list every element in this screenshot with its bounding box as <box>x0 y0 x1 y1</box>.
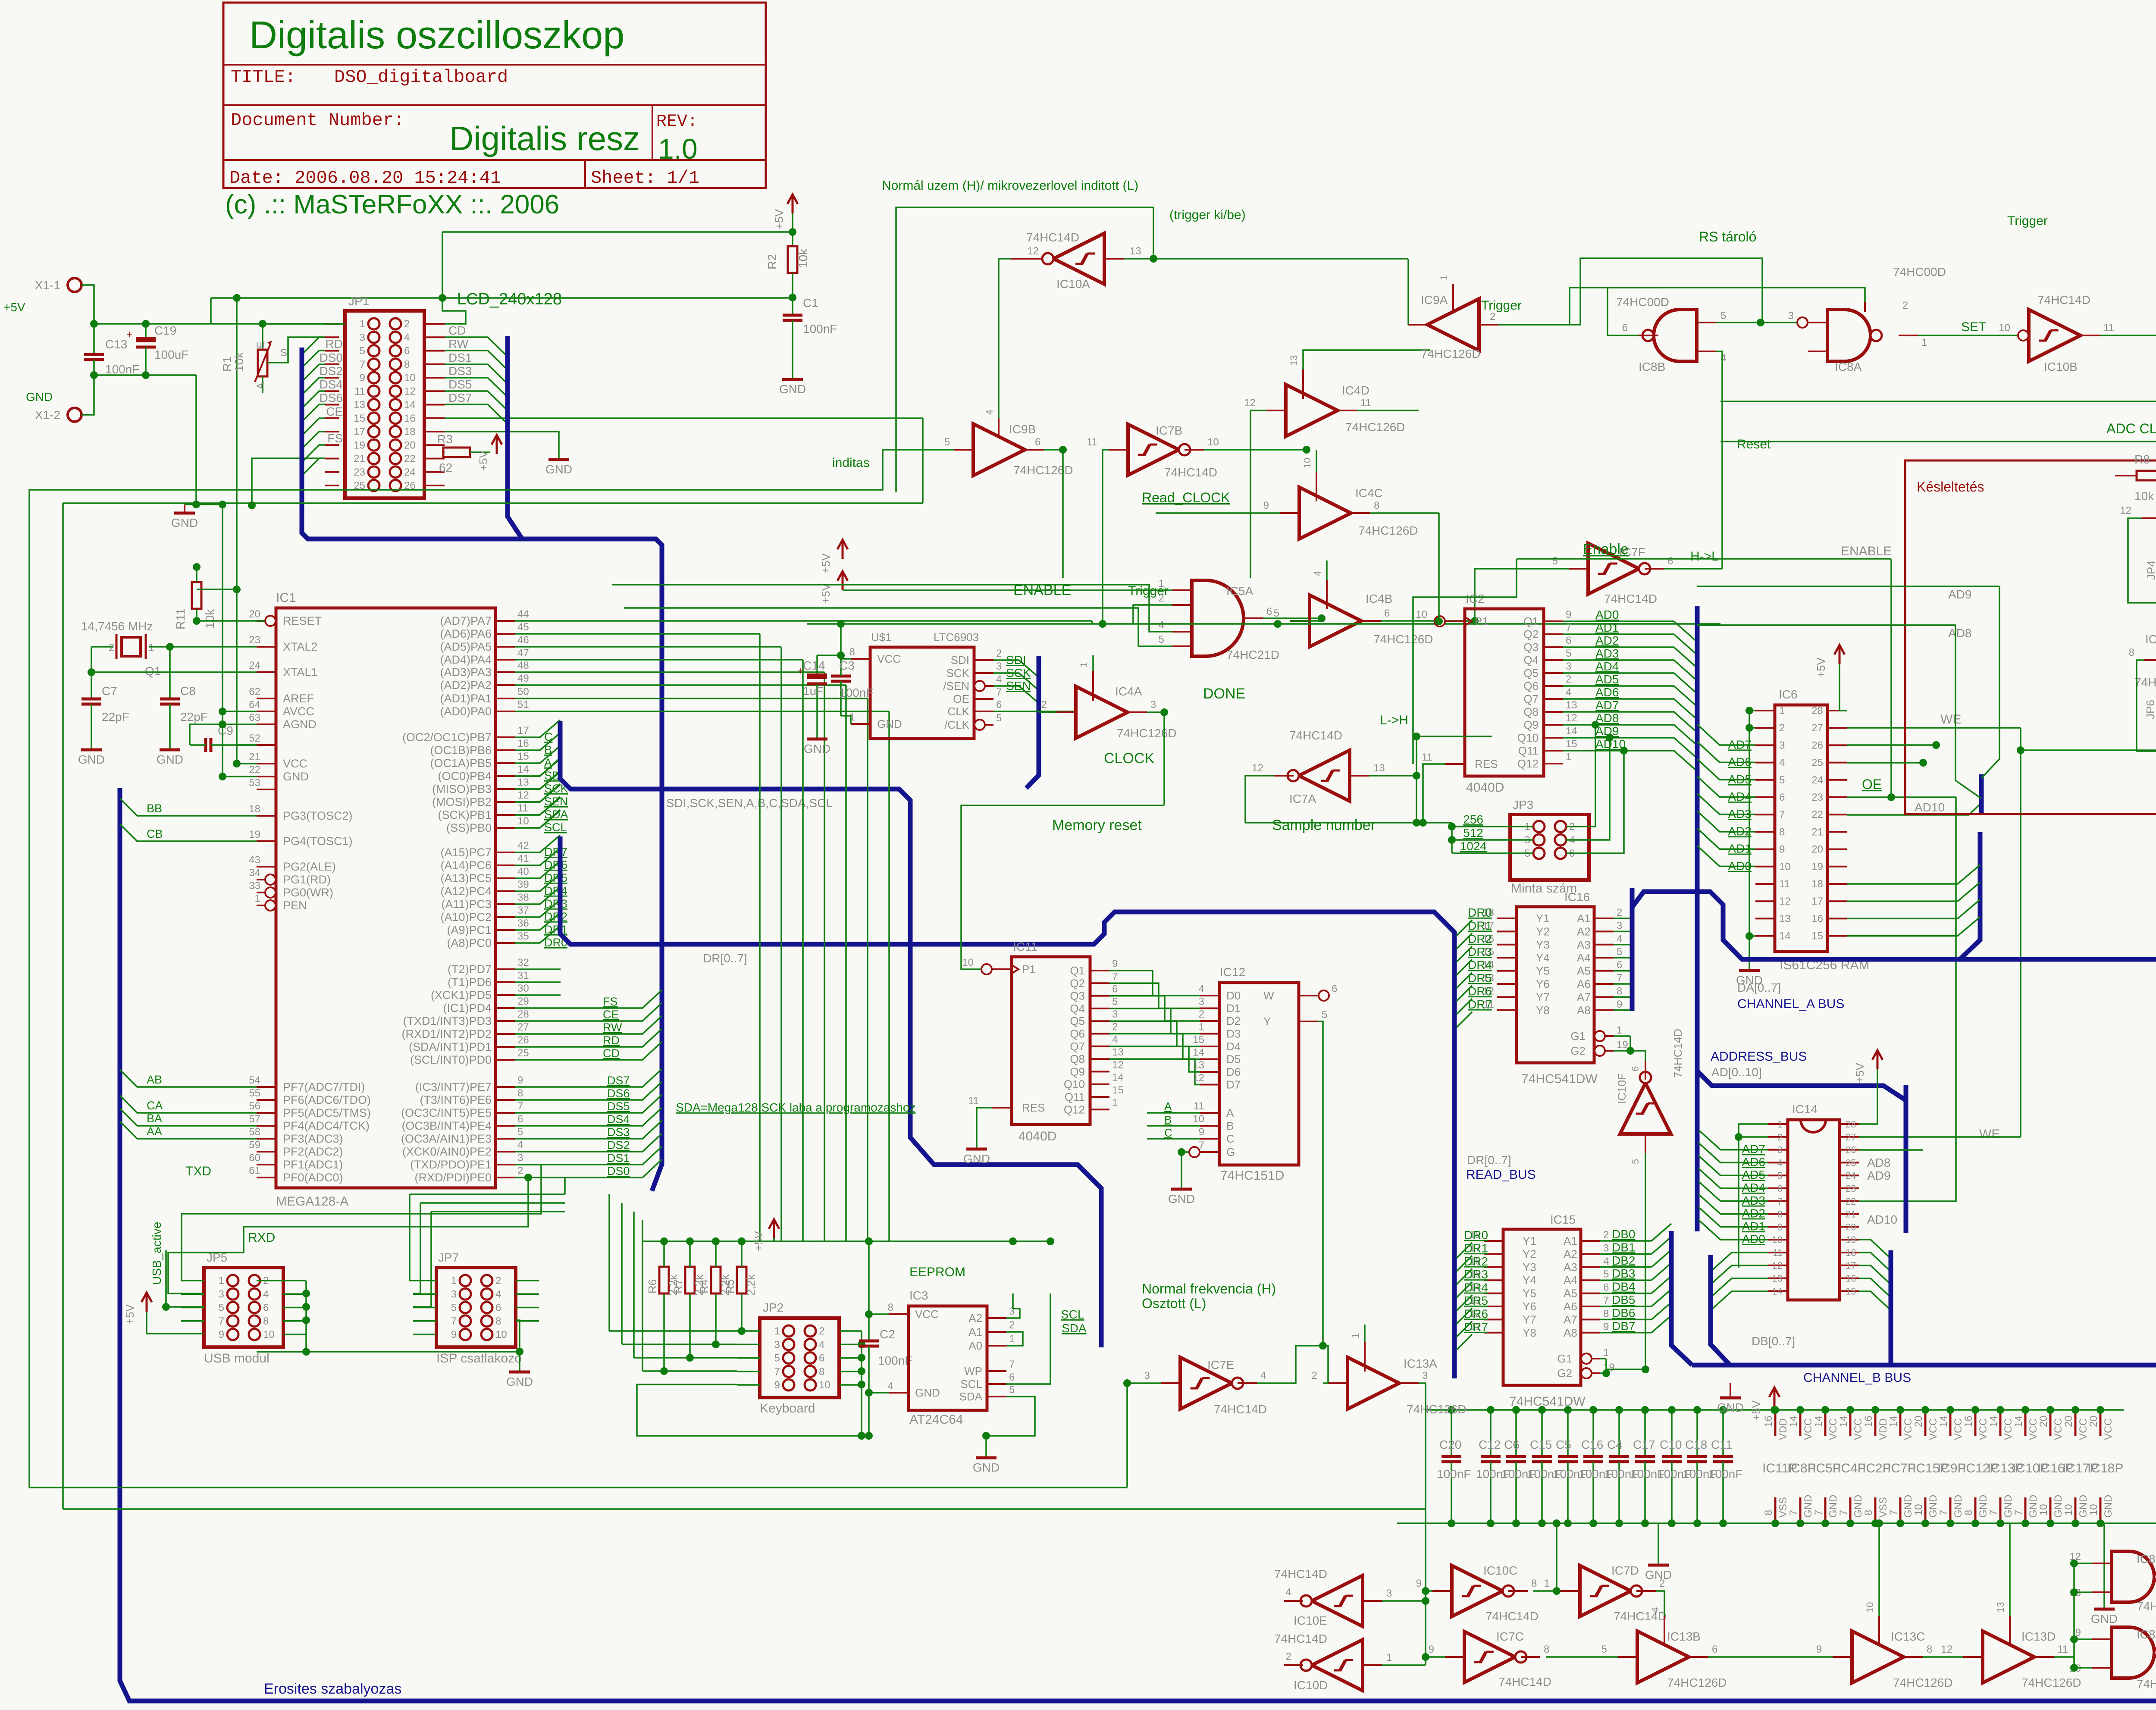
svg-text:Q12: Q12 <box>1064 1103 1085 1116</box>
nand IC8A <box>1827 310 1871 361</box>
svg-text:4: 4 <box>1312 571 1323 576</box>
svg-text:12: 12 <box>517 789 529 801</box>
IC3 vcc wire <box>869 1313 889 1315</box>
svg-text:IC8B: IC8B <box>1639 360 1665 373</box>
svg-text:C16: C16 <box>1581 1438 1603 1451</box>
svg-text:PG2(ALE): PG2(ALE) <box>283 860 336 873</box>
svg-text:AD8: AD8 <box>1595 711 1619 725</box>
svg-text:1: 1 <box>774 1325 780 1337</box>
svg-text:JP7: JP7 <box>438 1251 459 1264</box>
svg-text:+5V: +5V <box>752 1231 765 1251</box>
svg-text:2: 2 <box>1617 907 1622 918</box>
svg-text:4: 4 <box>1286 1586 1291 1598</box>
svg-text:LTC6903: LTC6903 <box>934 631 979 644</box>
wire IC6 gnd pins <box>1749 711 1755 970</box>
svg-text:IC13B: IC13B <box>1667 1630 1701 1643</box>
svg-text:IC5A: IC5A <box>1226 584 1253 598</box>
svg-text:3: 3 <box>1779 739 1785 751</box>
svg-text:CHANNEL_A BUS: CHANNEL_A BUS <box>1737 997 1844 1011</box>
svg-text:8: 8 <box>1863 1510 1874 1516</box>
svg-text:4: 4 <box>1720 352 1726 364</box>
svg-text:42: 42 <box>517 840 529 852</box>
svg-text:DB7: DB7 <box>1612 1319 1635 1333</box>
svg-text:4: 4 <box>1112 1034 1118 1046</box>
svg-text:(A13)PC5: (A13)PC5 <box>440 872 492 885</box>
inverter IC10B <box>2029 310 2081 361</box>
svg-text:Trigger: Trigger <box>2007 214 2048 228</box>
svg-text:10: 10 <box>1207 436 1219 448</box>
svg-text:2: 2 <box>1779 722 1785 734</box>
svg-text:8: 8 <box>1531 1578 1537 1589</box>
svg-text:(c) .:: MaSTeRFoXX ::. 2006: (c) .:: MaSTeRFoXX ::. 2006 <box>225 190 559 219</box>
JP3 right wires <box>1566 725 1595 827</box>
svg-text:1: 1 <box>1544 1578 1550 1589</box>
svg-text:GND: GND <box>915 1386 940 1399</box>
bus AD short <box>1979 774 1984 814</box>
wire IC4C out v <box>1438 513 1440 621</box>
svg-text:(A9)PC1: (A9)PC1 <box>447 924 492 936</box>
ground right <box>2094 1608 2115 1611</box>
svg-text:9: 9 <box>517 1074 523 1086</box>
svg-text:16: 16 <box>1811 913 1823 924</box>
svg-text:10: 10 <box>2063 1504 2075 1516</box>
svg-text:RD: RD <box>326 337 343 351</box>
IC1 pin AGND <box>257 723 276 725</box>
svg-text:DS5: DS5 <box>448 378 472 391</box>
svg-text:61: 61 <box>249 1165 260 1177</box>
IC14 AD diagonals <box>1698 1130 1768 1150</box>
svg-text:Y2: Y2 <box>1523 1247 1536 1260</box>
svg-text:5: 5 <box>1630 1159 1641 1164</box>
svg-text:74HC21D: 74HC21D <box>1226 648 1279 661</box>
wire IC7F in <box>1475 569 1569 621</box>
svg-text:(A12)PC4: (A12)PC4 <box>440 885 492 898</box>
svg-text:37: 37 <box>517 905 529 916</box>
wire IC12 Y <box>1318 1021 1323 1345</box>
svg-text:C11: C11 <box>1711 1438 1732 1451</box>
svg-text:DS7: DS7 <box>607 1074 630 1087</box>
svg-text:74HC126D: 74HC126D <box>2134 676 2156 689</box>
svg-text:H->L: H->L <box>1690 549 1719 564</box>
+5V arrow R3 <box>492 435 502 454</box>
svg-text:20: 20 <box>2088 1416 2100 1427</box>
wire CE out <box>445 417 923 419</box>
svg-text:4: 4 <box>1650 1607 1661 1613</box>
svg-text:PF2(ADC2): PF2(ADC2) <box>283 1145 343 1158</box>
svg-text:Y4: Y4 <box>1536 951 1550 964</box>
svg-text:DB4: DB4 <box>1612 1280 1635 1293</box>
svg-text:C10: C10 <box>1660 1438 1682 1451</box>
svg-text:14: 14 <box>1112 1072 1124 1084</box>
svg-text:8: 8 <box>1763 1510 1774 1516</box>
svg-text:4: 4 <box>819 1339 824 1350</box>
+5V arrow caps <box>1769 1387 1780 1406</box>
wire IC13D enable <box>2009 1599 2011 1616</box>
nand IC8B <box>1654 310 1697 361</box>
svg-text:AB: AB <box>147 1073 162 1086</box>
connector JP2 Keyboard <box>760 1318 839 1397</box>
svg-text:Y2: Y2 <box>1536 925 1550 938</box>
svg-text:IC8P: IC8P <box>1787 1461 1816 1475</box>
wire trigger to IC5A <box>1133 605 1172 624</box>
svg-text:6: 6 <box>1384 608 1390 619</box>
svg-text:DONE: DONE <box>1203 686 1245 702</box>
svg-text:BA: BA <box>147 1112 162 1125</box>
svg-text:12: 12 <box>404 385 416 397</box>
svg-text:+5V: +5V <box>1853 1062 1866 1083</box>
svg-text:Q5: Q5 <box>1070 1015 1085 1027</box>
svg-text:DB6: DB6 <box>1612 1306 1635 1319</box>
IC1 pin PG1(RD) <box>257 879 276 880</box>
svg-text:10: 10 <box>1772 1234 1783 1245</box>
svg-text:15: 15 <box>1811 930 1823 942</box>
svg-text:Normál uzem (H)/ mikrovezerlov: Normál uzem (H)/ mikrovezerlovel inditot… <box>882 179 1138 193</box>
svg-text:VCC: VCC <box>1902 1418 1914 1440</box>
IC IC16 74HC541DW <box>1517 907 1594 1063</box>
svg-text:5: 5 <box>944 436 950 448</box>
wire GND branch <box>185 375 196 504</box>
svg-text:3: 3 <box>996 661 1002 672</box>
svg-text:35: 35 <box>517 930 529 942</box>
svg-text:12: 12 <box>1772 1260 1783 1271</box>
svg-text:9: 9 <box>1566 609 1571 620</box>
svg-text:(SS)PB0: (SS)PB0 <box>446 821 492 834</box>
svg-text:1: 1 <box>219 1275 224 1287</box>
svg-text:7: 7 <box>1112 971 1118 982</box>
bus address branch <box>1697 1071 1906 1212</box>
wire AD9 route <box>1981 586 1999 778</box>
svg-text:D6: D6 <box>1226 1065 1241 1078</box>
svg-text:74HC541DW: 74HC541DW <box>1521 1072 1598 1086</box>
svg-text:MEGA128-A: MEGA128-A <box>276 1194 348 1209</box>
svg-text:11: 11 <box>2103 322 2114 334</box>
IC1 PA wires <box>515 620 1092 622</box>
svg-text:2: 2 <box>819 1325 824 1337</box>
svg-text:Késleltetés: Késleltetés <box>1917 479 1984 495</box>
svg-text:ISP csatlakozo: ISP csatlakozo <box>436 1351 522 1365</box>
svg-text:10: 10 <box>517 815 529 827</box>
svg-text:GND: GND <box>1902 1495 1914 1518</box>
svg-text:C8: C8 <box>180 684 196 698</box>
wire IC10F in <box>1645 1153 1646 1369</box>
svg-text:3: 3 <box>1150 699 1156 711</box>
svg-text:3: 3 <box>1199 996 1204 1008</box>
svg-text:4: 4 <box>1617 933 1622 945</box>
svg-text:16: 16 <box>1963 1416 1974 1427</box>
wire IC4D enable <box>1303 350 1430 370</box>
svg-text:WE: WE <box>1940 712 1961 727</box>
svg-text:7: 7 <box>360 359 365 370</box>
svg-text:7: 7 <box>1788 1510 1799 1516</box>
svg-text:DR4: DR4 <box>1464 1281 1488 1294</box>
svg-text:14: 14 <box>2013 1416 2024 1427</box>
+5V arrow IC6 <box>1834 645 1845 664</box>
svg-text:50: 50 <box>517 686 529 698</box>
svg-text:10: 10 <box>1302 458 1313 468</box>
svg-text:CE: CE <box>326 405 343 418</box>
svg-text:16: 16 <box>517 738 529 749</box>
svg-text:(OC1A)PB5: (OC1A)PB5 <box>430 757 492 770</box>
svg-text:26: 26 <box>1846 1145 1856 1156</box>
svg-text:PF1(ADC1): PF1(ADC1) <box>283 1158 343 1171</box>
svg-text:5: 5 <box>1552 555 1558 567</box>
IC IC12 74HC151D <box>1219 983 1299 1165</box>
svg-text:IC13A: IC13A <box>1404 1357 1437 1370</box>
svg-text:(IC1)PD4: (IC1)PD4 <box>443 1002 492 1015</box>
svg-text:74HC126D: 74HC126D <box>1667 1676 1727 1689</box>
svg-text:49: 49 <box>517 673 529 684</box>
svg-text:(SCL/INT0)PD0: (SCL/INT0)PD0 <box>410 1053 492 1066</box>
svg-text:27: 27 <box>1846 1132 1856 1143</box>
wires res to kbd <box>663 1294 665 1371</box>
capacitor C13 <box>93 324 95 354</box>
wire IC7A out <box>1245 776 1274 823</box>
IC1 pin GND <box>257 776 276 777</box>
svg-text:IC7B: IC7B <box>1156 424 1182 437</box>
IC2 pins <box>1445 620 1465 622</box>
svg-text:Y1: Y1 <box>1536 912 1550 925</box>
svg-text:74HC126D: 74HC126D <box>2021 1676 2081 1689</box>
svg-text:9: 9 <box>1603 1321 1609 1333</box>
svg-text:8: 8 <box>1603 1308 1609 1319</box>
svg-text:RES: RES <box>1475 758 1498 770</box>
svg-text:/SEN: /SEN <box>943 680 969 692</box>
svg-text:DS6: DS6 <box>607 1087 630 1100</box>
wire IC4A enable <box>1092 655 1094 671</box>
wire gnd drop2 <box>2103 1523 2105 1608</box>
svg-text:VCC: VCC <box>1927 1418 1939 1440</box>
svg-text:D1: D1 <box>1226 1002 1241 1015</box>
svg-text:IC13C: IC13C <box>1891 1630 1925 1643</box>
svg-text:20: 20 <box>1913 1416 1924 1427</box>
+5V arrow res rail <box>769 1219 779 1238</box>
svg-text:Q8: Q8 <box>1070 1052 1085 1065</box>
svg-text:1: 1 <box>1078 662 1089 667</box>
svg-text:41: 41 <box>517 853 529 864</box>
svg-text:54: 54 <box>249 1074 260 1086</box>
svg-text:D0: D0 <box>1226 989 1241 1002</box>
wire IC7E in <box>1127 1382 1161 1384</box>
svg-text:9: 9 <box>360 372 365 384</box>
svg-text:IC2P: IC2P <box>1862 1461 1891 1475</box>
+5V arrow JP5 <box>141 1293 152 1312</box>
svg-text:DR3: DR3 <box>1464 1268 1488 1281</box>
svg-text:2: 2 <box>1286 1651 1291 1663</box>
bus SDI vertical <box>560 721 1101 1347</box>
svg-text:6: 6 <box>1630 1066 1641 1071</box>
svg-text:+5V: +5V <box>773 209 786 229</box>
svg-text:9: 9 <box>1429 1644 1434 1655</box>
svg-text:1: 1 <box>1566 751 1571 763</box>
U$1 pins <box>851 658 870 660</box>
wire ADC_CLOCK h <box>1720 401 2156 402</box>
svg-text:100nF: 100nF <box>1437 1467 1471 1481</box>
wire VCC GND <box>237 763 257 764</box>
buffer IC9B <box>973 424 1025 476</box>
svg-text:(T1)PD6: (T1)PD6 <box>448 976 492 989</box>
svg-text:63: 63 <box>249 712 260 723</box>
svg-text:(AD4)PA4: (AD4)PA4 <box>440 653 492 666</box>
svg-text:15: 15 <box>1193 1034 1204 1046</box>
svg-text:GND: GND <box>1977 1495 1989 1518</box>
svg-text:IC11: IC11 <box>1013 940 1037 953</box>
svg-text:11: 11 <box>1773 1247 1783 1258</box>
svg-text:1: 1 <box>1603 1347 1609 1359</box>
wire IC9A in <box>1498 288 1663 325</box>
svg-text:2: 2 <box>1009 1319 1015 1331</box>
svg-text:28: 28 <box>1811 705 1823 717</box>
svg-text:IC2: IC2 <box>1466 592 1485 605</box>
svg-text:G: G <box>1226 1146 1235 1159</box>
svg-text:21: 21 <box>1846 1209 1856 1220</box>
wire jp7 gnd <box>516 1320 520 1371</box>
svg-text:IC8C: IC8C <box>2137 1628 2156 1641</box>
svg-text:PG0(WR): PG0(WR) <box>283 886 333 899</box>
svg-text:2: 2 <box>109 642 114 654</box>
svg-text:IC4C: IC4C <box>1355 486 1383 500</box>
svg-text:25: 25 <box>1811 757 1823 769</box>
svg-text:Q8: Q8 <box>1523 705 1539 718</box>
svg-text:9: 9 <box>1263 500 1269 511</box>
svg-text:2: 2 <box>1490 311 1495 323</box>
svg-text:IC10E: IC10E <box>1294 1614 1327 1627</box>
svg-text:DR5: DR5 <box>1464 1294 1488 1307</box>
wire ENABLE rail <box>807 623 1720 625</box>
svg-text:11: 11 <box>1087 436 1097 448</box>
svg-text:74HC00D: 74HC00D <box>2137 1677 2156 1691</box>
svg-text:32: 32 <box>517 957 529 968</box>
ground C14 <box>807 738 827 741</box>
svg-text:IC7P: IC7P <box>1887 1461 1916 1475</box>
svg-text:16: 16 <box>404 413 416 424</box>
wire IC4D out <box>1357 410 1419 411</box>
svg-text:GND: GND <box>973 1461 1000 1474</box>
svg-text:Q10: Q10 <box>1064 1078 1085 1091</box>
svg-text:IC4A: IC4A <box>1115 685 1142 698</box>
svg-text:VCC: VCC <box>1827 1418 1839 1440</box>
svg-text:VCC: VCC <box>2028 1418 2039 1440</box>
wire xtal1 <box>91 647 257 672</box>
svg-text:40: 40 <box>517 866 529 877</box>
wire IC4B out <box>1381 620 1475 622</box>
wire IC12 gnd <box>1181 1152 1182 1188</box>
wire IC7B in <box>1103 450 1109 624</box>
svg-text:XTAL1: XTAL1 <box>283 666 318 679</box>
svg-text:21: 21 <box>1811 826 1823 838</box>
svg-text:R7: R7 <box>672 1279 685 1293</box>
svg-text:IC14: IC14 <box>1792 1102 1818 1116</box>
svg-text:AT24C64: AT24C64 <box>909 1412 963 1427</box>
svg-text:8: 8 <box>1544 1644 1549 1655</box>
svg-text:4: 4 <box>1777 1157 1783 1168</box>
IC14 pins <box>1768 1123 1788 1125</box>
svg-text:BB: BB <box>147 802 162 815</box>
svg-text:GND: GND <box>506 1375 533 1388</box>
svg-text:GND: GND <box>2002 1495 2014 1518</box>
IC14 right lower diagonals <box>1859 1240 1891 1259</box>
resistor R3 <box>443 451 445 453</box>
svg-text:A4: A4 <box>1564 1274 1577 1287</box>
ground sym jp1 <box>548 458 569 461</box>
svg-text:A1: A1 <box>1577 912 1591 925</box>
svg-text:5: 5 <box>360 345 365 357</box>
svg-text:DB2: DB2 <box>1612 1254 1635 1267</box>
svg-text:10k: 10k <box>232 352 246 372</box>
svg-text:SDA: SDA <box>959 1390 983 1403</box>
wire LH right <box>1416 736 1492 737</box>
svg-text:9: 9 <box>774 1379 780 1391</box>
IC1 pin PG3(TOSC2) <box>257 815 276 817</box>
svg-text:X1-1: X1-1 <box>35 279 60 292</box>
svg-text:C3: C3 <box>839 659 855 672</box>
svg-text:11: 11 <box>517 802 528 814</box>
svg-text:74HC14D: 74HC14D <box>1164 466 1217 479</box>
svg-text:TITLE:: TITLE: <box>231 67 296 88</box>
svg-text:A: A <box>255 382 266 389</box>
svg-text:31: 31 <box>517 970 529 981</box>
svg-text:10: 10 <box>819 1379 830 1391</box>
svg-text:4: 4 <box>984 410 995 415</box>
svg-text:43: 43 <box>249 854 260 866</box>
IC IC11 4040D <box>1012 957 1090 1124</box>
capacitor C1 <box>789 294 796 301</box>
svg-text:7: 7 <box>996 686 1002 698</box>
wire X1-1 to +5V rail <box>81 285 94 324</box>
svg-text:S: S <box>280 347 287 359</box>
svg-text:25: 25 <box>517 1047 529 1059</box>
svg-text:14: 14 <box>1813 1416 1824 1427</box>
svg-text:Y5: Y5 <box>1523 1287 1536 1300</box>
wire gates bundle <box>2073 1563 2075 1668</box>
svg-text:A1: A1 <box>1564 1234 1577 1247</box>
IC3 pins <box>889 1313 909 1315</box>
svg-text:Y3: Y3 <box>1536 938 1550 951</box>
inverter IC7A <box>1299 750 1350 801</box>
svg-text:A2: A2 <box>1577 925 1591 938</box>
svg-text:DS2: DS2 <box>607 1139 630 1152</box>
bus DA up <box>1960 832 1980 959</box>
svg-text:(TXD1/INT3)PD3: (TXD1/INT3)PD3 <box>403 1015 492 1027</box>
svg-text:AD5: AD5 <box>1595 673 1619 686</box>
svg-text:(AD0)PA0: (AD0)PA0 <box>440 705 492 718</box>
svg-text:Q11: Q11 <box>1518 744 1539 757</box>
ground caps1 <box>1730 1383 1731 1397</box>
svg-text:Y5: Y5 <box>1536 965 1550 977</box>
wire IC12 G <box>1181 1151 1189 1153</box>
svg-text:6: 6 <box>1712 1644 1717 1655</box>
svg-text:7: 7 <box>1777 1196 1783 1207</box>
svg-text:GND: GND <box>26 390 53 404</box>
inverter IC10C <box>1452 1566 1503 1616</box>
resistor R8 <box>2137 471 2156 480</box>
svg-text:DS6: DS6 <box>320 391 343 404</box>
svg-text:VCC: VCC <box>877 652 901 665</box>
svg-text:+: + <box>126 329 132 340</box>
svg-text:1: 1 <box>1009 1333 1015 1345</box>
svg-text:22pF: 22pF <box>102 710 129 723</box>
svg-text:DS4: DS4 <box>607 1113 630 1126</box>
svg-text:OE: OE <box>953 692 969 705</box>
svg-text:(A11)PC3: (A11)PC3 <box>441 898 492 911</box>
svg-text:A8: A8 <box>1577 1004 1591 1017</box>
svg-text:C12: C12 <box>1479 1438 1501 1451</box>
wire IC8A pin2 stub <box>1864 302 1866 312</box>
svg-text:JP3: JP3 <box>1513 798 1533 811</box>
wire pin52 <box>189 744 191 746</box>
svg-text:8: 8 <box>263 1315 269 1327</box>
svg-text:RW: RW <box>603 1021 622 1034</box>
wire IC7C out <box>1546 1656 1618 1658</box>
